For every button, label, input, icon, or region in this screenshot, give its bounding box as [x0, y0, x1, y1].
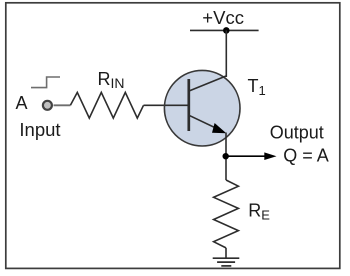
resistor RIN	[70, 92, 143, 118]
transistor T1 emitter line with arrow	[189, 115, 221, 130]
transistor T1 collector line	[189, 76, 226, 91]
input step waveform symbol	[31, 77, 60, 88]
resistor RE	[214, 180, 239, 248]
output junction dot	[223, 153, 229, 159]
output wire with arrow	[226, 155, 266, 157]
junction dot at Vcc	[223, 27, 230, 34]
svg-text:Input: Input	[19, 119, 60, 140]
svg-text:A: A	[16, 93, 28, 113]
transistor T1 base bar	[187, 79, 190, 131]
svg-text:Q = A: Q = A	[283, 146, 329, 166]
input terminal node A	[43, 101, 52, 110]
wire emitter down to output node and RE	[225, 133, 227, 181]
transistor T1 base lead	[165, 104, 189, 106]
wire RIN to base	[144, 104, 166, 106]
svg-text:+Vcc: +Vcc	[202, 7, 244, 28]
ground	[213, 257, 240, 259]
wire collector to Vcc rail	[225, 30, 227, 77]
Vcc rail wire	[190, 29, 259, 31]
transistor T1 body circle	[164, 70, 240, 146]
wire RE to ground	[225, 248, 227, 258]
wire input terminal to RIN	[54, 104, 71, 106]
svg-text:Output: Output	[270, 122, 324, 142]
